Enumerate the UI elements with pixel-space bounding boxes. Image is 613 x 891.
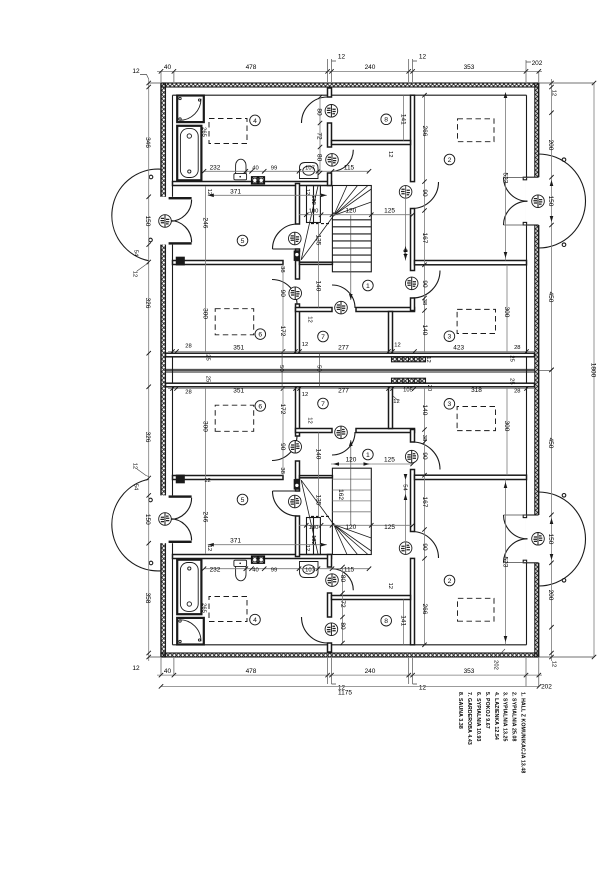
- svg-text:12: 12: [304, 189, 310, 195]
- svg-text:132: 132: [310, 195, 316, 205]
- svg-text:141: 141: [399, 114, 406, 125]
- svg-text:90: 90: [421, 280, 428, 288]
- svg-text:115: 115: [344, 567, 355, 574]
- svg-text:371: 371: [230, 188, 241, 195]
- svg-text:12: 12: [551, 661, 557, 667]
- svg-text:107: 107: [305, 165, 315, 171]
- svg-text:6: 6: [258, 403, 262, 410]
- svg-text:90: 90: [421, 189, 428, 197]
- svg-text:523: 523: [501, 173, 508, 184]
- svg-text:40: 40: [164, 668, 172, 675]
- svg-text:12: 12: [387, 151, 393, 157]
- svg-text:300: 300: [503, 421, 510, 432]
- svg-text:7: 7: [321, 401, 325, 408]
- svg-text:4. LAZIENKA 12.54: 4. LAZIENKA 12.54: [493, 692, 499, 740]
- svg-text:167: 167: [421, 233, 428, 244]
- svg-text:2. SYPIALNIA 25.08: 2. SYPIALNIA 25.08: [511, 692, 517, 741]
- svg-text:20: 20: [426, 385, 432, 391]
- svg-text:28: 28: [185, 344, 191, 350]
- svg-text:135: 135: [314, 235, 321, 246]
- svg-text:38: 38: [279, 266, 285, 272]
- svg-text:1: 1: [366, 452, 370, 459]
- svg-text:3: 3: [448, 334, 452, 341]
- svg-text:38: 38: [421, 299, 427, 305]
- svg-text:358: 358: [144, 593, 151, 604]
- svg-text:150: 150: [144, 216, 151, 227]
- svg-text:100: 100: [309, 525, 319, 531]
- svg-text:140: 140: [421, 405, 428, 416]
- svg-text:232: 232: [210, 164, 221, 171]
- svg-text:450: 450: [547, 292, 554, 303]
- svg-text:246: 246: [201, 218, 208, 229]
- svg-text:371: 371: [230, 538, 241, 545]
- svg-text:12: 12: [419, 54, 427, 61]
- svg-text:353: 353: [464, 64, 475, 71]
- svg-text:202: 202: [532, 60, 543, 67]
- svg-text:105: 105: [403, 388, 413, 394]
- svg-text:6. SYPIALNIA 10.93: 6. SYPIALNIA 10.93: [475, 692, 481, 741]
- svg-text:28: 28: [185, 390, 191, 396]
- svg-text:80: 80: [316, 154, 323, 162]
- svg-text:90: 90: [421, 452, 428, 460]
- svg-text:38: 38: [421, 435, 427, 441]
- svg-text:3. SYPIALNIA 13.25: 3. SYPIALNIA 13.25: [502, 692, 508, 741]
- svg-text:351: 351: [233, 388, 244, 395]
- svg-text:140: 140: [314, 281, 321, 292]
- svg-text:326: 326: [144, 432, 151, 443]
- svg-text:135: 135: [314, 495, 321, 506]
- svg-text:120: 120: [345, 208, 356, 215]
- svg-text:266: 266: [421, 604, 428, 615]
- svg-text:200: 200: [547, 140, 554, 151]
- svg-text:200: 200: [547, 590, 554, 601]
- svg-text:12: 12: [132, 463, 138, 469]
- svg-text:125: 125: [384, 208, 395, 215]
- svg-text:72: 72: [316, 132, 323, 140]
- svg-text:90: 90: [279, 443, 286, 451]
- svg-text:277: 277: [338, 345, 349, 352]
- svg-text:50: 50: [316, 365, 322, 371]
- svg-text:100: 100: [309, 209, 319, 215]
- svg-text:12: 12: [393, 399, 399, 405]
- svg-text:54: 54: [401, 484, 407, 491]
- svg-text:5: 5: [241, 238, 245, 245]
- svg-text:2: 2: [448, 578, 452, 585]
- svg-text:28: 28: [514, 345, 520, 351]
- svg-text:12: 12: [394, 343, 400, 349]
- svg-text:478: 478: [246, 64, 257, 71]
- svg-text:12: 12: [419, 685, 427, 692]
- svg-text:202: 202: [541, 683, 552, 690]
- svg-text:4: 4: [253, 118, 257, 125]
- svg-text:5: 5: [241, 497, 245, 504]
- svg-text:167: 167: [421, 497, 428, 508]
- svg-text:523: 523: [501, 557, 508, 568]
- svg-text:125: 125: [384, 457, 395, 464]
- svg-text:12: 12: [306, 316, 312, 322]
- svg-text:12: 12: [387, 583, 393, 589]
- svg-text:12: 12: [302, 392, 308, 398]
- svg-text:265: 265: [201, 127, 207, 137]
- svg-text:232: 232: [210, 567, 221, 574]
- svg-text:90: 90: [279, 290, 286, 298]
- svg-text:353: 353: [464, 668, 475, 675]
- svg-text:54: 54: [401, 249, 407, 256]
- svg-text:80: 80: [339, 622, 346, 630]
- svg-text:99: 99: [271, 165, 277, 171]
- svg-text:40: 40: [164, 64, 172, 71]
- svg-text:12: 12: [302, 342, 308, 348]
- svg-text:38: 38: [279, 467, 285, 473]
- svg-text:141: 141: [399, 615, 406, 626]
- svg-text:50: 50: [278, 365, 284, 371]
- svg-text:132: 132: [310, 535, 316, 545]
- svg-text:120: 120: [345, 524, 356, 531]
- svg-text:12: 12: [206, 545, 212, 551]
- svg-text:202: 202: [493, 660, 499, 670]
- svg-text:120: 120: [346, 457, 357, 464]
- svg-text:7. GARDEROBA 4.43: 7. GARDEROBA 4.43: [466, 692, 472, 745]
- svg-text:28: 28: [514, 389, 520, 395]
- svg-text:423: 423: [453, 345, 464, 352]
- svg-text:8: 8: [384, 117, 388, 124]
- svg-text:5. POKOJ 9.67: 5. POKOJ 9.67: [484, 692, 490, 729]
- svg-text:1175: 1175: [338, 690, 352, 697]
- svg-text:115: 115: [344, 164, 355, 171]
- svg-text:8. SAUNA 3.38: 8. SAUNA 3.38: [457, 692, 463, 729]
- svg-text:1. HALL Z KOMUNIKACJA 13.48: 1. HALL Z KOMUNIKACJA 13.48: [520, 692, 526, 773]
- svg-text:12: 12: [206, 189, 212, 195]
- svg-text:3: 3: [448, 401, 452, 408]
- svg-text:12: 12: [132, 665, 140, 672]
- svg-text:266: 266: [421, 126, 428, 137]
- svg-text:90: 90: [421, 543, 428, 551]
- svg-text:240: 240: [365, 64, 376, 71]
- svg-text:318: 318: [471, 387, 482, 394]
- svg-text:172: 172: [279, 404, 286, 415]
- svg-text:12: 12: [132, 68, 140, 75]
- svg-text:150: 150: [144, 514, 151, 525]
- svg-text:140: 140: [314, 449, 321, 460]
- svg-text:4: 4: [253, 617, 257, 624]
- svg-text:12: 12: [338, 54, 346, 61]
- svg-text:300: 300: [201, 308, 208, 319]
- svg-text:25: 25: [509, 378, 515, 384]
- svg-text:478: 478: [246, 668, 257, 675]
- svg-text:2: 2: [448, 157, 452, 164]
- svg-text:246: 246: [201, 512, 208, 523]
- svg-text:240: 240: [365, 668, 376, 675]
- svg-text:265: 265: [201, 603, 207, 613]
- svg-text:1: 1: [366, 283, 370, 290]
- svg-text:107: 107: [305, 568, 315, 574]
- svg-text:12: 12: [551, 90, 557, 96]
- svg-text:1800: 1800: [590, 363, 597, 378]
- svg-text:140: 140: [421, 325, 428, 336]
- svg-text:54: 54: [133, 484, 139, 491]
- svg-text:351: 351: [233, 345, 244, 352]
- svg-text:300: 300: [201, 421, 208, 432]
- svg-text:12: 12: [425, 356, 431, 362]
- svg-text:12: 12: [132, 271, 138, 277]
- svg-text:7: 7: [321, 334, 325, 341]
- svg-text:172: 172: [279, 326, 286, 337]
- svg-text:72: 72: [339, 600, 346, 608]
- svg-text:8: 8: [384, 618, 388, 625]
- svg-text:99: 99: [271, 568, 277, 574]
- svg-text:450: 450: [547, 438, 554, 449]
- svg-text:326: 326: [144, 298, 151, 309]
- svg-text:25: 25: [205, 354, 211, 360]
- svg-text:80: 80: [339, 575, 346, 583]
- svg-text:277: 277: [338, 388, 349, 395]
- svg-text:25: 25: [509, 355, 515, 361]
- svg-text:300: 300: [503, 307, 510, 318]
- svg-text:12: 12: [204, 478, 210, 484]
- svg-text:80: 80: [316, 108, 323, 116]
- svg-text:25: 25: [205, 376, 211, 382]
- svg-text:40: 40: [252, 568, 258, 574]
- svg-text:6: 6: [258, 332, 262, 339]
- svg-text:12: 12: [306, 417, 312, 423]
- svg-text:150: 150: [547, 534, 554, 545]
- svg-text:54: 54: [133, 250, 139, 257]
- svg-text:12: 12: [304, 545, 310, 551]
- svg-text:150: 150: [547, 196, 554, 207]
- svg-text:40: 40: [252, 165, 258, 171]
- svg-text:125: 125: [384, 524, 395, 531]
- svg-text:162: 162: [337, 489, 344, 500]
- svg-text:346: 346: [144, 137, 151, 148]
